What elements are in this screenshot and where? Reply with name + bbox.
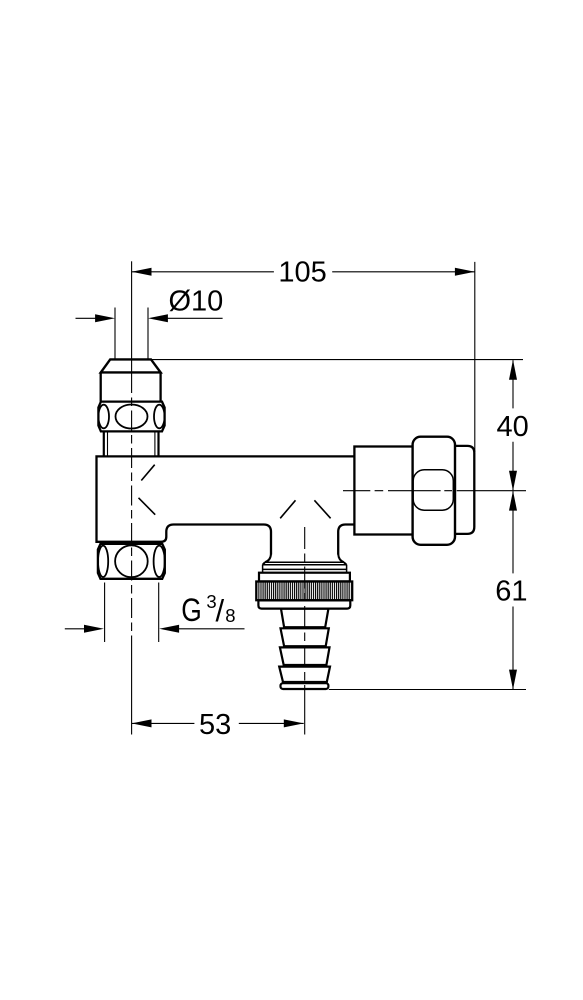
- hose port diagonal left: [280, 500, 295, 518]
- dim 105 left arrow: [132, 268, 152, 276]
- hex nut upper centre ellipse: [116, 405, 148, 429]
- centreline inlet vertical: [131, 373, 133, 640]
- hex nut lower: [98, 544, 165, 579]
- dim 61 bottom extension line: [329, 689, 526, 691]
- upper thread inner: [108, 431, 155, 456]
- hose barb end flange: [281, 683, 329, 689]
- svg-text:8: 8: [225, 605, 235, 626]
- dim 53 left arrow: [132, 719, 152, 727]
- union nut right: [413, 437, 455, 545]
- valve flare cone: [101, 359, 161, 372]
- dim G3/8 right leader: [178, 628, 245, 630]
- svg-text:Ø10: Ø10: [169, 285, 224, 317]
- valve body: [97, 456, 355, 554]
- knurl hatching: [258, 582, 351, 599]
- hose nut bottom plate: [258, 600, 350, 608]
- centreline inlet vertical solid top: [131, 261, 133, 373]
- dim 53 right arrow: [284, 719, 304, 727]
- inlet pipe Ø10 sides: [115, 308, 148, 360]
- hose barb segment 3: [280, 647, 330, 665]
- valve upper neck: [101, 372, 161, 401]
- outlet end cap: [440, 446, 474, 534]
- hose collar rings: [263, 562, 347, 573]
- centreline hose solid bottom / 53 extension: [304, 695, 306, 735]
- hex nut upper right ellipse: [154, 405, 165, 429]
- dim 105 right extension line: [474, 262, 476, 452]
- svg-text:G: G: [181, 592, 202, 628]
- hex nut lower centre ellipse: [115, 545, 148, 577]
- dim 61 line: [512, 491, 514, 689]
- dim 105 right arrow: [455, 268, 475, 276]
- dim 40 line: [512, 360, 514, 490]
- dim 53 line: [132, 722, 304, 724]
- dim 40 bottom arrow: [509, 471, 517, 491]
- body face diagonal lower: [139, 498, 156, 515]
- hose nut knurl band: [256, 582, 352, 601]
- dim 105 line: [132, 271, 475, 273]
- dim Ø10 right arrow: [148, 314, 168, 322]
- hex nut upper: [98, 402, 164, 432]
- hose barb segment 1: [281, 609, 328, 627]
- svg-text:40: 40: [496, 411, 528, 443]
- dim G3/8 left leader: [65, 628, 85, 630]
- body face diagonal upper: [141, 465, 154, 481]
- hex nut lower left ellipse: [98, 546, 108, 577]
- dim G3/8 right arrow: [159, 625, 179, 633]
- hose port diagonal right: [314, 500, 330, 518]
- outlet cylinder: [354, 447, 413, 535]
- centreline hose vertical: [304, 527, 306, 695]
- svg-text:53: 53: [199, 709, 231, 741]
- svg-text:/: /: [216, 593, 225, 628]
- dim 40 top extension line: [152, 359, 523, 361]
- hose collar flare: [263, 554, 347, 565]
- hex nut lower right ellipse: [154, 546, 165, 577]
- dim Ø10 right leader: [167, 317, 223, 319]
- upper thread outer: [104, 431, 159, 456]
- dim 40 top arrow: [509, 360, 517, 380]
- svg-text:61: 61: [495, 576, 527, 608]
- centreline inlet vertical solid bottom / 53 extension: [131, 640, 133, 735]
- union nut facet: [413, 470, 453, 510]
- hose barb segment 4: [279, 667, 330, 682]
- lower thread G3/8: [105, 583, 159, 643]
- dim Ø10 left arrow: [95, 314, 115, 322]
- dim 61 bottom arrow: [509, 670, 517, 690]
- dim G3/8 left arrow: [84, 625, 104, 633]
- hose barb segment 2: [281, 628, 329, 646]
- centreline outlet horizontal: [343, 490, 526, 492]
- dim Ø10 left leader: [76, 317, 97, 319]
- dim 61 top arrow: [509, 491, 517, 511]
- hose nut upper band: [259, 573, 350, 582]
- hex nut upper left ellipse: [98, 405, 109, 429]
- svg-text:105: 105: [278, 257, 326, 289]
